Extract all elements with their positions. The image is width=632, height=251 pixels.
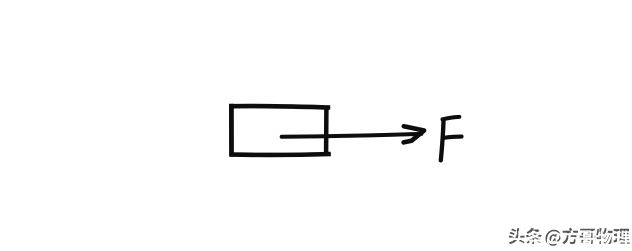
label F middle bar — [444, 137, 462, 138]
block (box) bottom edge — [229, 152, 330, 157]
watermark @方哥物理 (white carve copy) — [547, 230, 631, 248]
block (box) left edge — [229, 104, 234, 156]
watermark 头条 (white carve copy) — [510, 230, 543, 246]
block (box) top edge — [229, 106, 330, 107]
watermark @方哥物理 (gray main copy) — [546, 228, 630, 246]
force arrow shaft — [282, 134, 422, 137]
force arrow head — [404, 126, 425, 142]
block (box) right edge — [324, 106, 329, 154]
watermark 头条 (gray main copy) — [509, 228, 542, 244]
label F vertical stroke — [441, 122, 444, 161]
label F top bar — [443, 117, 460, 119]
